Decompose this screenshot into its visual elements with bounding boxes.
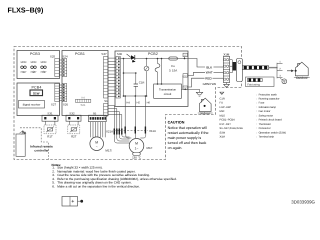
thermistor R2T: [68, 121, 80, 138]
svg-text:S24: S24: [62, 55, 68, 59]
PCB4 board (signal receiver): [17, 83, 60, 116]
svg-text:~: ~: [96, 145, 98, 149]
svg-text:PCB3: PCB3: [30, 52, 40, 56]
svg-text:PCB1~PCB4: PCB1~PCB4: [220, 119, 236, 122]
svg-text::: :: [257, 110, 258, 113]
notes list: [52, 163, 177, 189]
connector S37 on PCB1: [101, 52, 107, 98]
svg-text:1~: 1~: [135, 146, 139, 150]
cable plug at X1M: [230, 59, 243, 82]
indoor house icon: [198, 98, 213, 115]
svg-text:S21: S21: [81, 103, 86, 107]
svg-text:H6: H6: [147, 101, 151, 104]
wires X21A to fan motor M1F: [114, 135, 129, 144]
svg-text:CAUTION: CAUTION: [168, 120, 185, 124]
terminal H2: [183, 74, 188, 78]
svg-text::: :: [257, 131, 258, 134]
wire RED: [188, 77, 223, 88]
svg-text:S1W: S1W: [33, 91, 40, 95]
varistor V1: [144, 66, 149, 71]
infrared emission arrows: [20, 131, 27, 135]
arrow to outdoor: [287, 70, 297, 73]
wire GRN/YLW with earth: [188, 82, 216, 96]
svg-text:PCB1: PCB1: [75, 52, 85, 56]
svg-text:PCB4: PCB4: [32, 85, 42, 89]
svg-text:main power supply is: main power supply is: [168, 136, 202, 140]
connector S26 on PCB1: [62, 84, 68, 107]
svg-text:Printed circuit board: Printed circuit board: [259, 119, 283, 122]
svg-text:LED: LED: [21, 60, 28, 64]
wires S25 to S24: [59, 60, 62, 75]
svg-text:Connector: Connector: [259, 127, 271, 130]
svg-text:circuit: circuit: [164, 92, 172, 96]
svg-text:Indication lamp: Indication lamp: [259, 106, 277, 109]
outdoor house icon: [294, 62, 310, 80]
svg-text:H3P: H3P: [41, 70, 47, 74]
svg-text:turned off and then back: turned off and then back: [168, 141, 207, 145]
svg-text::: :: [257, 106, 258, 109]
inter-unit striped cable: [242, 66, 277, 70]
connector X11A: [114, 127, 156, 134]
capacitor C1R: [134, 80, 145, 86]
svg-text:on again.: on again.: [168, 146, 183, 150]
wires S6 to swing motor M1S: [91, 122, 106, 138]
coil L1: [155, 64, 160, 72]
outdoor earth terminal: [280, 79, 287, 84]
svg-text:M1S: M1S: [220, 114, 226, 117]
svg-text:S36: S36: [117, 52, 123, 56]
svg-text:S25: S25: [50, 55, 56, 59]
svg-text:C1R: C1R: [139, 80, 145, 84]
svg-text:Indoor: Indoor: [201, 112, 211, 116]
indoor unit dashed boundary: [14, 47, 242, 160]
LED H2P: [31, 60, 38, 74]
PCB3 board (indication lamps): [17, 51, 60, 79]
svg-text:LED: LED: [41, 60, 48, 64]
wire WHT: [188, 71, 223, 76]
svg-text:S6: S6: [93, 111, 97, 115]
svg-text:X21A: X21A: [106, 130, 113, 134]
connector X21A: [106, 129, 123, 135]
connector S21 with jumper H4 inside PCB1: [76, 97, 91, 107]
svg-text:FU: FU: [220, 102, 224, 105]
PCB1 board (main control): [62, 51, 108, 116]
thermistor R1T: [44, 121, 56, 138]
svg-text::: :: [257, 127, 258, 130]
PCB2 internal bus wires: [120, 59, 188, 97]
svg-text::: :: [257, 114, 258, 117]
wire from transmission circuit to H2 H3: [181, 76, 188, 90]
svg-text:2: 2: [279, 68, 281, 71]
svg-text:Fan motor: Fan motor: [259, 110, 271, 113]
svg-text:controller: controller: [34, 149, 49, 153]
svg-text:Signal receiver: Signal receiver: [23, 103, 41, 106]
svg-text::: :: [257, 102, 258, 105]
svg-text:S1W: S1W: [220, 131, 226, 134]
terminal H3: [183, 86, 188, 90]
svg-text:M1F: M1F: [220, 110, 226, 113]
svg-text:H2P: H2P: [31, 70, 37, 74]
connector S36 on PCB2: [116, 52, 122, 98]
slit illustration: [62, 197, 83, 207]
svg-text:restart automatically if the: restart automatically if the: [168, 131, 209, 135]
legend field wiring sample box: [246, 77, 275, 87]
wires S37 to S36: [108, 58, 116, 96]
svg-text:M: M: [95, 140, 98, 144]
PCB2 board (power): [115, 51, 188, 106]
svg-text::: :: [257, 119, 258, 122]
connector S31: [42, 111, 58, 121]
operation switch S1W: [30, 90, 43, 96]
svg-text:Terminal strip: Terminal strip: [259, 136, 275, 139]
svg-text:R1T~R2T: R1T~R2T: [220, 123, 232, 126]
swing motor M1S: [90, 137, 112, 153]
fuse FU 3.15A: [169, 57, 178, 73]
transmission circuit box: [154, 84, 182, 98]
svg-text:M1S: M1S: [105, 149, 111, 153]
wires PCB2 H4 H5 H6 to X11A: [125, 96, 145, 127]
connector S27 on PCB4: [51, 84, 59, 107]
LED H3P: [41, 60, 48, 74]
thermal fuse 130C of fan motor: [132, 152, 141, 159]
LED H1P: [21, 60, 28, 74]
svg-text:H1P~H3P: H1P~H3P: [220, 106, 232, 109]
svg-text:X11A: X11A: [149, 129, 156, 133]
terminal H1: [183, 53, 188, 58]
junction dots: [123, 58, 125, 60]
svg-text:M1F: M1F: [147, 146, 153, 150]
svg-text:6.: 6.: [52, 184, 55, 188]
svg-text:Operation switch (S1W): Operation switch (S1W): [259, 131, 287, 134]
svg-text:S37: S37: [101, 52, 107, 56]
svg-text:LED: LED: [31, 60, 38, 64]
svg-text:Running capacitor: Running capacitor: [259, 98, 280, 101]
wires X11A to fan motor: [126, 134, 146, 139]
fan motor M1F: [129, 139, 152, 154]
diode D1: [127, 54, 136, 62]
terminal strip X1M: [223, 53, 230, 83]
svg-text:GRN/YLW: GRN/YLW: [203, 82, 217, 86]
svg-text:Make a slit cut on the separat: Make a slit cut on the separation line i…: [57, 184, 140, 188]
svg-text:Thermistor: Thermistor: [259, 123, 272, 126]
connector S24 on PCB1: [62, 55, 68, 77]
svg-text:3. 15A: 3. 15A: [169, 68, 177, 72]
svg-text:Transmission: Transmission: [159, 87, 176, 91]
svg-text:Notice that operation will: Notice that operation will: [168, 126, 207, 130]
svg-text:H4: H4: [126, 101, 130, 104]
connector S1 on PCB1: [104, 99, 109, 116]
legend table: [220, 92, 287, 138]
svg-text::: :: [257, 98, 258, 101]
svg-text:S26: S26: [63, 103, 69, 107]
svg-text:3: 3: [279, 75, 281, 78]
svg-text:M: M: [135, 141, 138, 145]
svg-text:H5: H5: [137, 101, 141, 104]
svg-text::: :: [257, 93, 258, 96]
svg-text:PCB2: PCB2: [148, 52, 158, 56]
svg-text:S31: S31: [47, 111, 53, 115]
svg-text:Fu: Fu: [171, 64, 175, 68]
svg-text:Swing motor: Swing motor: [259, 114, 274, 117]
svg-text:Fuse: Fuse: [259, 102, 265, 105]
earth below X1M: [224, 83, 230, 88]
svg-text:FLXS–B(9): FLXS–B(9): [8, 6, 45, 14]
connector S32: [66, 111, 81, 121]
svg-text:S32: S32: [69, 111, 75, 115]
connector S25 on PCB3: [50, 55, 59, 77]
svg-text:WHT: WHT: [206, 71, 213, 75]
svg-text:X1M: X1M: [223, 53, 230, 57]
svg-text:BLK: BLK: [206, 65, 213, 69]
caution note: [168, 120, 209, 150]
svg-text:S1: S1: [104, 99, 108, 103]
svg-text:130 °C: 130 °C: [132, 156, 141, 160]
infrared signal dashed path: [20, 128, 49, 160]
svg-text:RED: RED: [205, 77, 212, 81]
svg-text:R1T: R1T: [47, 135, 53, 139]
field wiring fan-out 1 2 3: [277, 61, 283, 79]
svg-text:S27: S27: [51, 103, 57, 107]
svg-text:X1M: X1M: [220, 136, 225, 139]
svg-text:C1R: C1R: [220, 98, 225, 101]
svg-text:Field wiring: Field wiring: [247, 83, 260, 86]
label infrared remote controller: [30, 144, 53, 152]
svg-text::: :: [257, 123, 258, 126]
svg-text:3D033939G: 3D033939G: [291, 199, 315, 204]
svg-text:Outdoor: Outdoor: [296, 76, 309, 80]
svg-text:1: 1: [279, 61, 281, 64]
svg-text:H1P: H1P: [21, 70, 27, 74]
signal receiver box: [19, 101, 45, 109]
wire BLK: [188, 59, 223, 70]
remote controller unit: [16, 134, 25, 156]
svg-text:Protective earth: Protective earth: [259, 93, 278, 96]
svg-text:S1~S37,X11A,X21A: S1~S37,X11A,X21A: [220, 127, 244, 130]
svg-text::: :: [257, 136, 258, 139]
svg-text:R2T: R2T: [71, 135, 77, 139]
wires S1 to X21A: [108, 106, 122, 129]
connector S6: [89, 111, 107, 121]
wires S27 to S26: [59, 85, 62, 100]
